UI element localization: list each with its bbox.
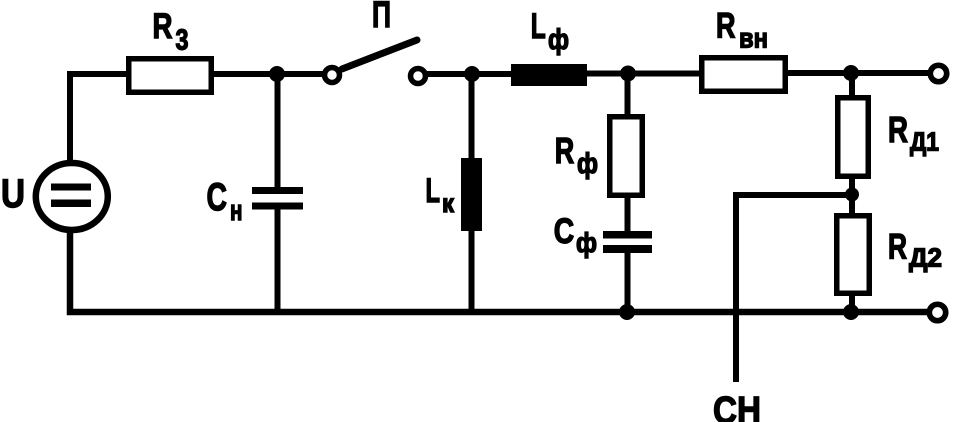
svg-text:ф: ф (577, 148, 598, 180)
node C (620, 66, 636, 82)
label Rф (555, 130, 598, 180)
svg-text:Д2: Д2 (909, 243, 942, 273)
label Rвн (716, 7, 768, 54)
node G (843, 304, 859, 320)
svg-text:Д1: Д1 (910, 127, 939, 157)
resistor Rф (610, 74, 643, 196)
node E (843, 65, 859, 81)
resistor RД1 (838, 73, 869, 216)
resistor R3 (129, 59, 212, 93)
inductor Lф (511, 64, 587, 86)
node A (269, 66, 285, 82)
label Lф (531, 7, 569, 56)
svg-text:U: U (1, 172, 25, 216)
svg-text:R: R (888, 228, 907, 267)
svg-text:R: R (716, 7, 736, 46)
resistor Rвн (702, 58, 786, 92)
svg-text:П: П (372, 0, 391, 35)
wire (587, 71, 699, 77)
svg-text:C: C (554, 212, 574, 251)
label Cф (554, 212, 597, 258)
svg-text:ф: ф (548, 24, 569, 56)
node B (464, 66, 480, 82)
svg-text:3: 3 (176, 25, 189, 57)
wire bottom rail (70, 229, 928, 312)
wire (788, 70, 928, 76)
svg-text:R: R (888, 109, 908, 150)
wire (214, 71, 323, 77)
svg-text:н: н (230, 195, 243, 227)
terminal top right (930, 65, 946, 81)
switch П (325, 40, 426, 84)
capacitor Cн (252, 74, 303, 312)
wire stabilizer CH tap (736, 195, 849, 382)
svg-text:C: C (207, 176, 228, 219)
wire (70, 74, 127, 163)
label R3 (153, 7, 189, 57)
wire (427, 71, 511, 77)
node D (619, 304, 635, 320)
capacitor Cф (603, 195, 652, 312)
terminal bottom right (929, 304, 945, 320)
svg-text:L: L (426, 172, 441, 210)
voltage source U (36, 163, 108, 230)
label Cн (207, 176, 243, 227)
resistor RД2 (837, 216, 870, 312)
label RД2 (888, 228, 942, 273)
label RД1 (888, 109, 939, 157)
inductor Lк (461, 74, 482, 312)
node F (845, 188, 859, 202)
svg-text:ф: ф (576, 227, 597, 258)
label Lк (426, 172, 455, 218)
svg-text:R: R (153, 7, 173, 46)
svg-text:СН: СН (713, 390, 761, 422)
wire (628, 71, 699, 77)
svg-text:L: L (531, 7, 546, 46)
svg-text:R: R (555, 130, 575, 171)
svg-text:вн: вн (739, 23, 768, 54)
svg-text:к: к (442, 188, 455, 218)
